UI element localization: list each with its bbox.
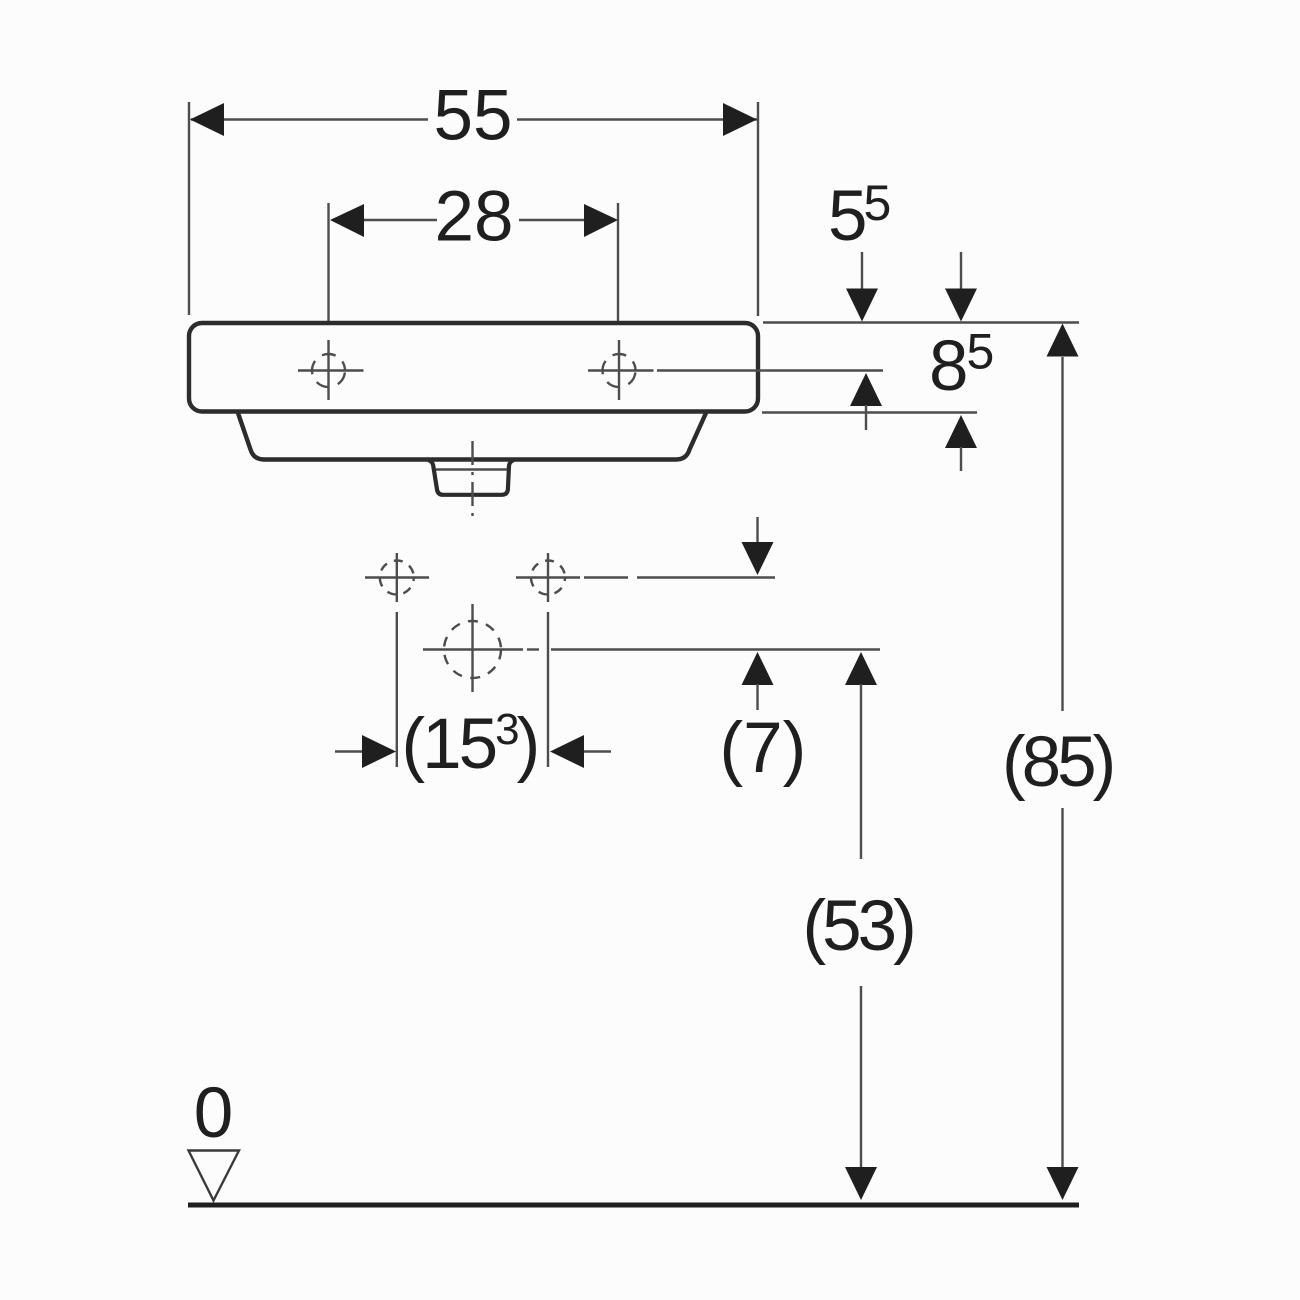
left fixing hole cross horizontal bbox=[365, 576, 429, 578]
dimension 5.5 up arrow bbox=[850, 373, 882, 406]
dimension 53 line upper bbox=[845, 652, 877, 685]
drain outlet outline bbox=[428, 460, 514, 495]
dimension 55 extension line right bbox=[757, 102, 759, 316]
siphon cross vertical bbox=[471, 604, 473, 692]
left fixing hole cross vertical bbox=[396, 553, 398, 602]
dimension 8.5 up arrow bbox=[945, 415, 977, 448]
dimension 28 arrow left bbox=[330, 204, 364, 237]
dimension 85 line upper bbox=[1061, 357, 1063, 711]
dimension 28 arrow right bbox=[584, 204, 618, 237]
dimension 28 line left segment bbox=[363, 219, 437, 221]
dimension 15.3 right arrow bbox=[550, 735, 584, 768]
dimension 15.3 extension line right bbox=[547, 612, 549, 767]
floor line bbox=[188, 1203, 1079, 1208]
washbasin bowl outline bbox=[238, 413, 706, 460]
svg-text:(7): (7) bbox=[720, 709, 807, 788]
svg-text:28: 28 bbox=[435, 178, 514, 257]
dimension 15.3 extension line left bbox=[396, 612, 398, 767]
rim top level line bbox=[763, 321, 1079, 323]
svg-text:(85): (85) bbox=[1002, 723, 1113, 802]
dimension 53 down arrow bbox=[845, 1167, 877, 1200]
dimension 85 down arrow bbox=[1047, 1167, 1079, 1200]
siphon level line dash bbox=[527, 648, 539, 650]
drain inner line bbox=[436, 468, 507, 470]
dimension 15.3 left arrow bbox=[335, 750, 362, 752]
dimension 28 extension line left bbox=[327, 203, 329, 334]
left fixing hole circle bbox=[380, 561, 414, 595]
zero level triangle bbox=[189, 1151, 240, 1201]
dimension 55 extension line left bbox=[188, 102, 190, 315]
svg-text:55: 55 bbox=[434, 77, 513, 156]
left tap hole cross horizontal bbox=[298, 369, 364, 371]
svg-text:(53): (53) bbox=[803, 887, 914, 966]
dimension 55 arrow right bbox=[723, 103, 757, 136]
dimension 85 line lower bbox=[1061, 808, 1063, 1194]
dimension 28 line right segment bbox=[519, 219, 584, 221]
fixing hole level dashed line bbox=[584, 576, 628, 578]
right fixing hole cross horizontal bbox=[516, 576, 580, 578]
right tap hole cross vertical bbox=[618, 340, 620, 400]
basin bottom level line bbox=[762, 411, 977, 413]
dimension 55 line right segment bbox=[517, 118, 757, 120]
right tap hole circle bbox=[603, 354, 636, 387]
dimension 7 down arrow bbox=[756, 517, 758, 544]
dimension 8.5 down arrow bbox=[960, 252, 962, 289]
dimension 5.5 down arrow bbox=[861, 252, 863, 289]
dimension 7 up arrow bbox=[742, 652, 774, 685]
left tap hole cross vertical bbox=[327, 340, 329, 400]
tap hole level line bbox=[657, 369, 883, 371]
siphon level line bbox=[551, 648, 880, 650]
dimension 28 extension line right bbox=[617, 203, 619, 334]
dimension 55 arrow left bbox=[190, 103, 224, 136]
dimension 55 line left segment bbox=[191, 118, 428, 120]
drain centerline bbox=[471, 441, 473, 520]
siphon cross horizontal bbox=[423, 648, 523, 650]
dimension 53 line lower bbox=[860, 986, 862, 1194]
right fixing hole cross vertical bbox=[547, 553, 549, 602]
washbasin body outline bbox=[189, 323, 758, 412]
right fixing hole circle bbox=[531, 561, 565, 595]
svg-text:0: 0 bbox=[194, 1074, 234, 1153]
svg-text:(153): (153) bbox=[402, 705, 538, 784]
left tap hole circle bbox=[312, 354, 345, 387]
dimension 85 up arrow bbox=[1047, 324, 1079, 357]
right tap hole cross horizontal bbox=[588, 369, 654, 371]
siphon circle bbox=[444, 621, 501, 678]
